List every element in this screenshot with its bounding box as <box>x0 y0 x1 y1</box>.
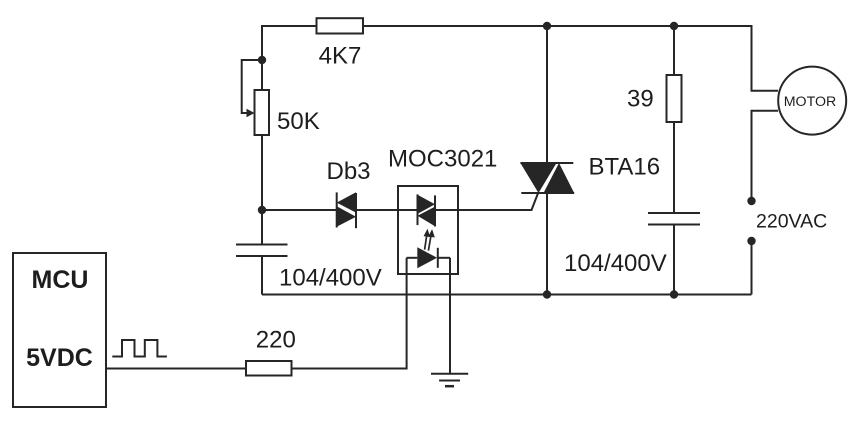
node dot top rail triac <box>543 22 551 30</box>
opto triac upper triangle <box>418 195 436 214</box>
wire bottom rail <box>262 294 752 296</box>
ground symbol <box>431 373 468 375</box>
potentiometer wiper arrowhead <box>247 109 255 118</box>
wire MCU to resistor 220 <box>106 368 246 370</box>
svg-text:MOC3021: MOC3021 <box>388 146 497 173</box>
node dot mid rail junction <box>258 206 266 214</box>
svg-text:4K7: 4K7 <box>319 43 362 70</box>
wire triac anode bottom <box>546 193 548 295</box>
svg-text:220VAC: 220VAC <box>756 211 827 233</box>
wire triac anode top <box>546 26 548 163</box>
MCU box <box>13 253 106 407</box>
LED emission arrows <box>425 231 434 251</box>
opto triac right bar <box>434 195 436 226</box>
wire mid rail node to diac <box>262 209 337 211</box>
triac BTA16 left triangle <box>520 163 556 193</box>
svg-text:Db3: Db3 <box>327 158 371 185</box>
wire cap to bottom rail <box>261 256 263 295</box>
wire 39 to cap <box>673 122 675 213</box>
capacitor C1 104/400V left plates <box>236 244 288 246</box>
motor M circle <box>778 67 846 135</box>
svg-text:5VDC: 5VDC <box>26 344 93 372</box>
triac Q1 BTA16 bottom bar <box>521 192 574 194</box>
svg-text:39: 39 <box>627 86 654 113</box>
svg-text:50K: 50K <box>277 108 320 135</box>
LED lead left <box>407 257 418 259</box>
resistor 220 <box>246 361 292 376</box>
diac Db3 left bar <box>336 192 338 227</box>
capacitor C2 104/400V right plates <box>648 212 700 214</box>
svg-text:BTA16: BTA16 <box>589 154 661 181</box>
diac Db3 right bar <box>355 193 357 228</box>
pulse waveform symbol <box>112 340 167 357</box>
wire MOC pin anode down <box>292 258 407 369</box>
wire 39 branch top <box>673 26 675 75</box>
node dot top rail 39 branch <box>670 22 678 30</box>
wire diac to opto triac <box>356 209 418 211</box>
triac BTA16 right triangle <box>544 163 575 193</box>
opto triac left bar <box>417 194 419 225</box>
LED lead right <box>438 257 450 259</box>
triac Q1 BTA16 top bar <box>520 162 573 164</box>
wire top rail left <box>262 26 317 90</box>
wire supply lower terminal to bottom rail <box>751 241 753 295</box>
potentiometer 50K body <box>255 90 270 135</box>
wire opto triac to gate of BTA16 <box>435 193 538 210</box>
svg-text:MOTOR: MOTOR <box>784 94 837 110</box>
diac Db3 lower triangle <box>337 206 356 226</box>
potentiometer wiper <box>242 60 262 113</box>
supply terminal dot lower <box>747 237 755 245</box>
opto-coupler U1 MOC3021 box <box>398 186 458 274</box>
node dot bottom rail cap branch <box>670 290 678 298</box>
svg-text:104/400V: 104/400V <box>564 250 667 277</box>
diac Db3 upper triangle <box>337 192 356 212</box>
supply terminal dot upper <box>747 197 755 205</box>
wire cap2 to bottom rail <box>673 225 675 295</box>
node dot wiper junction <box>258 56 266 64</box>
LED D1 triangle <box>417 247 437 268</box>
node dot bottom rail triac <box>543 290 551 298</box>
resistor 4K7 <box>317 18 364 33</box>
wire pot to mid rail <box>261 135 263 245</box>
svg-text:104/400V: 104/400V <box>279 265 382 292</box>
resistor 39 <box>667 75 682 122</box>
svg-text:MCU: MCU <box>32 266 89 294</box>
svg-text:220: 220 <box>256 327 296 354</box>
wire top rail right <box>363 26 778 91</box>
wire MOC pin cathode to ground <box>449 258 451 374</box>
LED cathode bar <box>437 248 439 268</box>
opto triac lower triangle <box>418 207 436 227</box>
wire motor lower stub to supply terminal <box>752 111 779 201</box>
